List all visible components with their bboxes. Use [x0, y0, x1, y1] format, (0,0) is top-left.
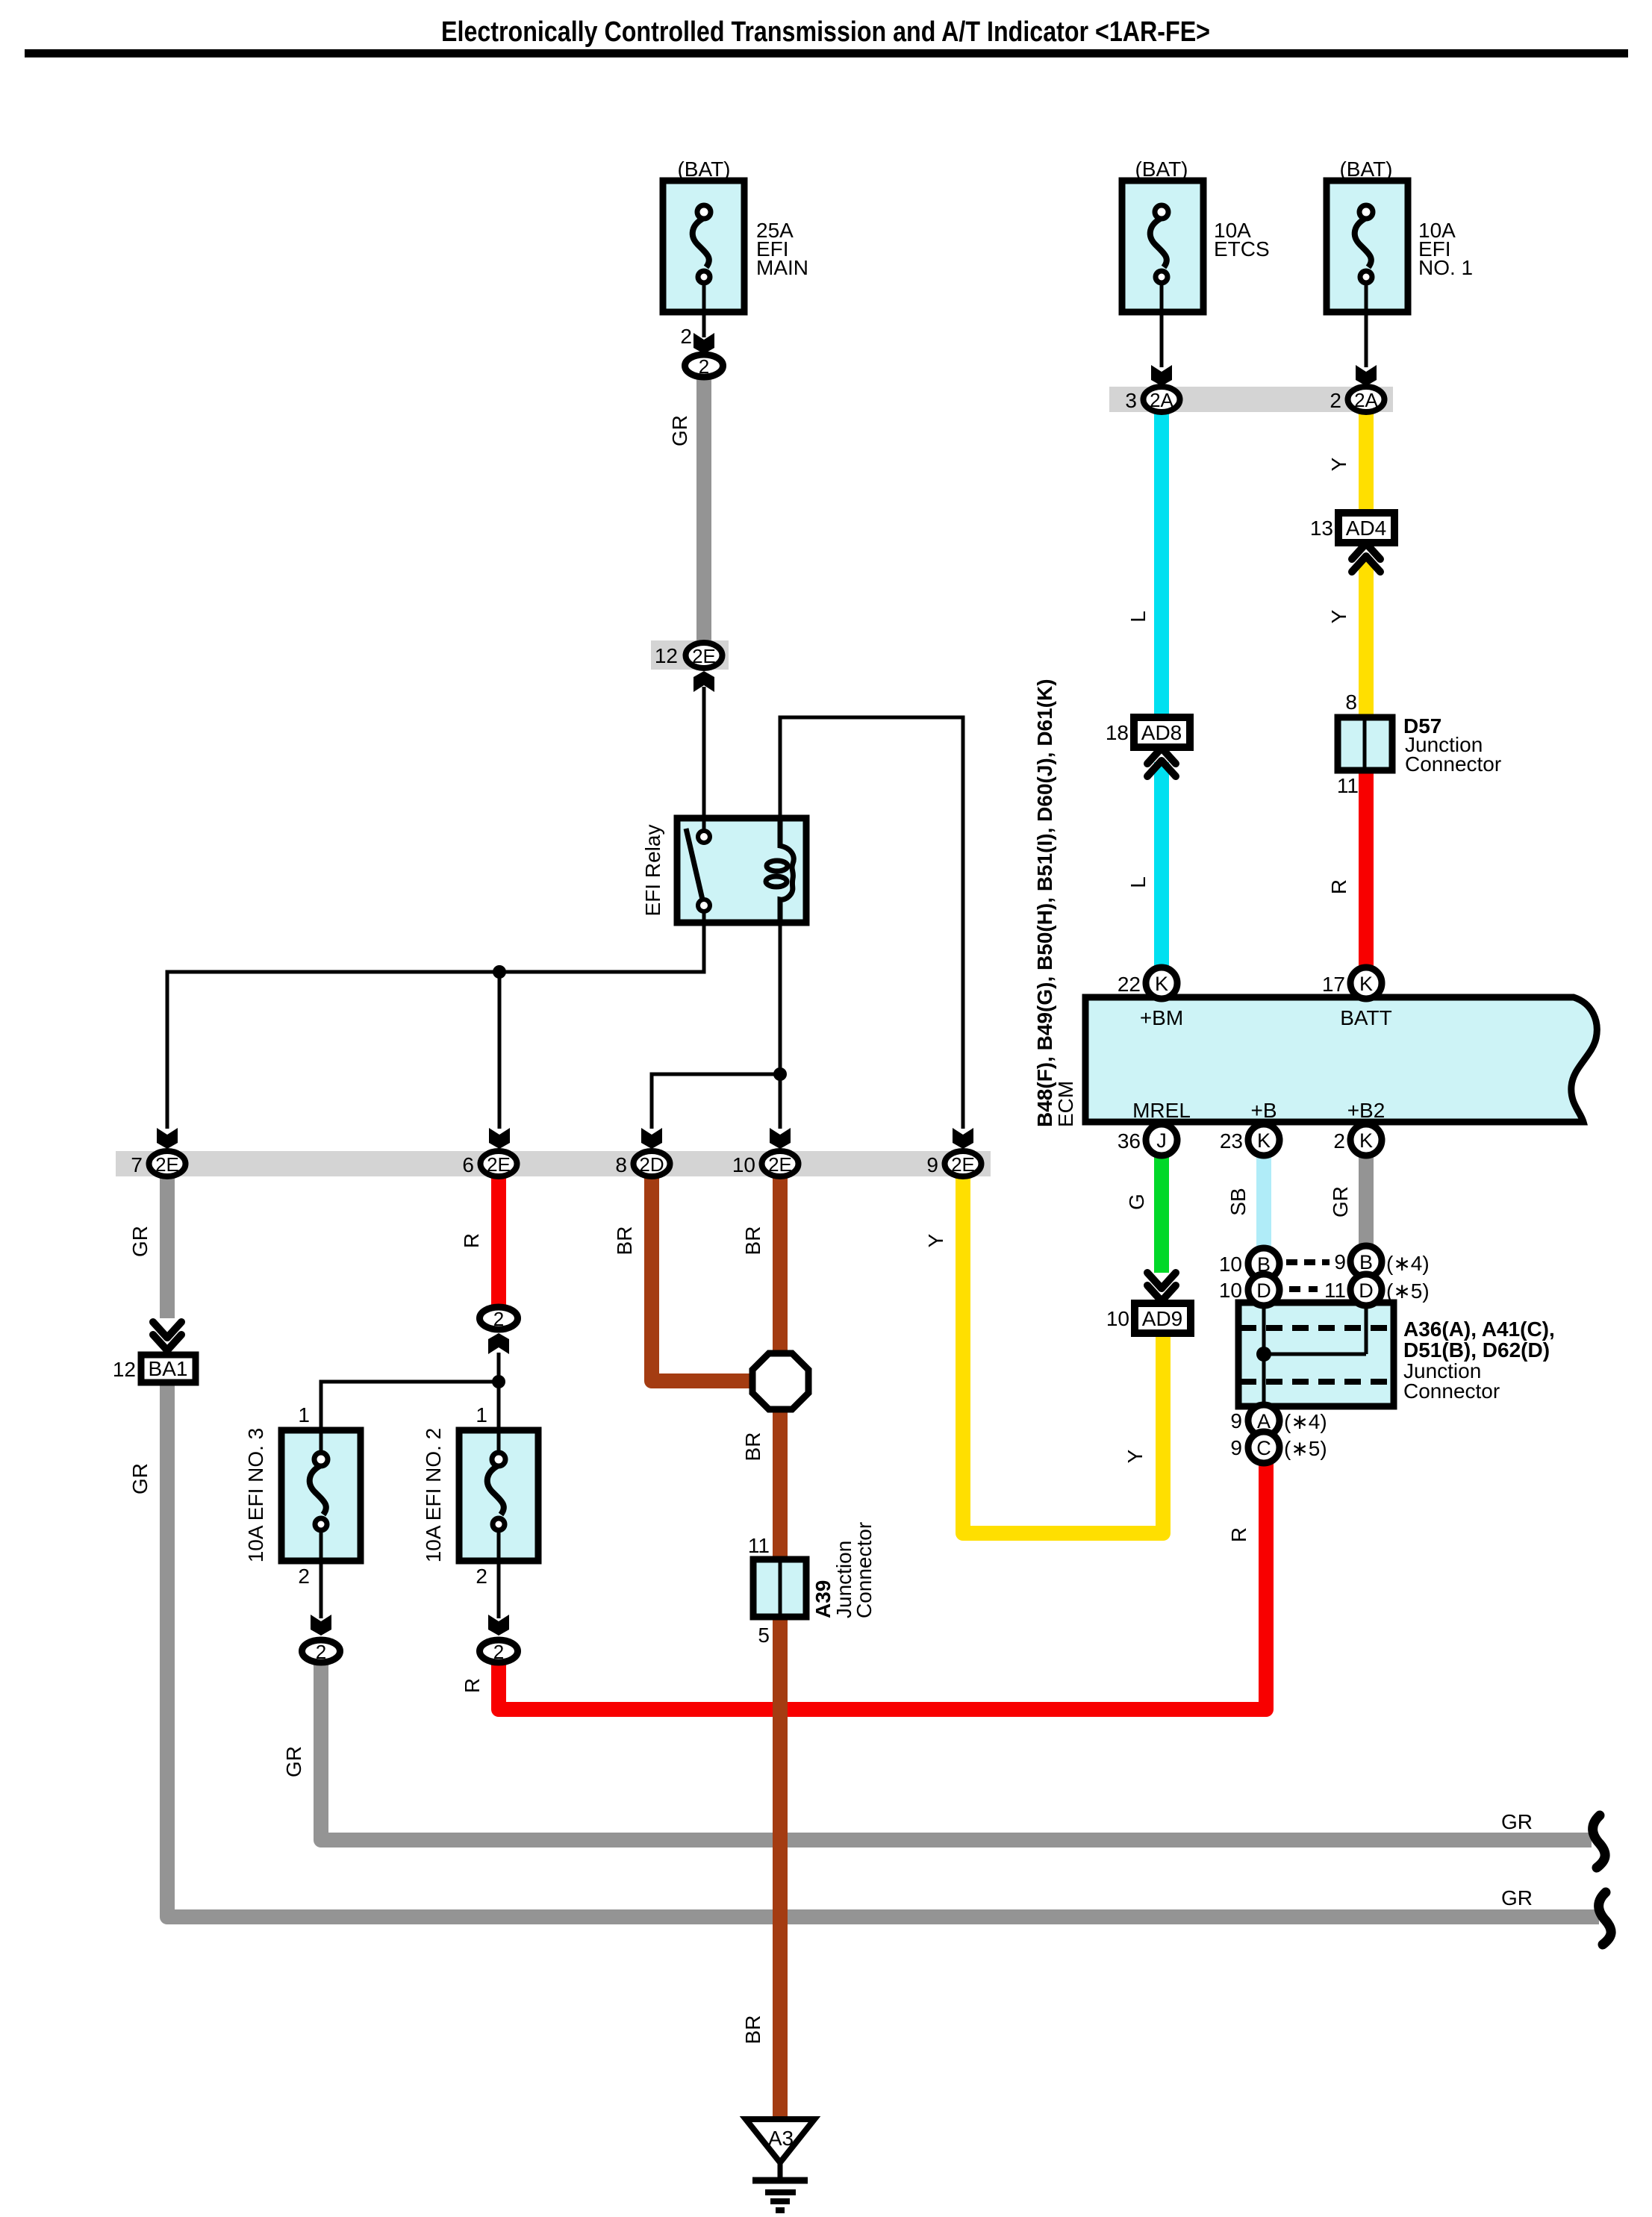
svg-text:10: 10: [732, 1153, 755, 1176]
svg-text:9: 9: [1230, 1436, 1242, 1459]
svg-text:A36(A), A41(C),: A36(A), A41(C),: [1403, 1318, 1555, 1341]
svg-text:BA1: BA1: [149, 1357, 188, 1380]
svg-text:GR: GR: [282, 1746, 305, 1777]
svg-text:R: R: [1227, 1527, 1250, 1542]
wire relay switch bottom to 7/2E and 6/2E: [167, 911, 704, 1129]
svg-text:2: 2: [680, 325, 692, 348]
svg-text:2: 2: [493, 1641, 504, 1663]
svg-text:GR: GR: [1501, 1810, 1533, 1833]
wire G ECM MREL to AD9: [1154, 1153, 1169, 1273]
svg-text:R: R: [1327, 879, 1350, 894]
svg-text:BATT: BATT: [1340, 1006, 1391, 1029]
svg-text:Connector: Connector: [1405, 752, 1501, 776]
svg-text:9: 9: [1334, 1250, 1346, 1273]
svg-text:12: 12: [113, 1358, 136, 1381]
svg-text:GR: GR: [1329, 1186, 1352, 1217]
connector oval 2 below fuse EFI NO.2: [480, 1640, 518, 1662]
svg-text:SB: SB: [1226, 1188, 1250, 1215]
svg-text:2E: 2E: [487, 1153, 511, 1176]
squiggle end of upper GR wire: [1593, 1815, 1606, 1868]
svg-text:B: B: [1359, 1251, 1373, 1273]
squiggle end of lower GR wire: [1599, 1892, 1612, 1945]
wire GR ECM +B2 to junction B: [1359, 1153, 1374, 1249]
svg-text:D: D: [1256, 1279, 1271, 1302]
svg-text:R: R: [460, 1233, 483, 1248]
svg-text:AD9: AD9: [1142, 1307, 1182, 1330]
svg-text:17: 17: [1322, 973, 1345, 996]
wire R fuse EFI NO.2 oval to junction connector C: [499, 1461, 1266, 1709]
svg-text:1: 1: [476, 1403, 487, 1426]
wire Y 9/2E to AD9: [963, 1176, 1163, 1533]
dashes between D and D: [1289, 1286, 1318, 1292]
svg-text:9: 9: [1230, 1409, 1242, 1432]
svg-text:2: 2: [493, 1308, 504, 1330]
junction node at 6/2E drop: [493, 965, 506, 979]
svg-text:(∗5): (∗5): [1386, 1279, 1430, 1303]
wire BR 10/2E to octagon: [773, 1176, 788, 1353]
svg-text:18: 18: [1106, 721, 1129, 744]
wire BR A39 to ground A3: [773, 1617, 788, 2120]
svg-text:(∗4): (∗4): [1284, 1410, 1327, 1433]
svg-text:Connector: Connector: [1403, 1379, 1500, 1403]
svg-text:2: 2: [298, 1565, 310, 1588]
connector oval 2 below fuse EFI NO.3: [302, 1640, 340, 1662]
wire relay switch to 12/2E: [702, 687, 706, 832]
wire R 6/2E to oval 2: [491, 1176, 506, 1305]
connector 18 AD8: [1106, 717, 1190, 776]
relay EFI Relay: [641, 818, 806, 923]
connector band 12 2E: [651, 640, 729, 670]
svg-text:2: 2: [316, 1641, 326, 1663]
svg-text:GR: GR: [1501, 1886, 1533, 1909]
svg-text:K: K: [1257, 1129, 1271, 1152]
svg-text:EFI Relay: EFI Relay: [641, 825, 664, 917]
svg-text:(∗4): (∗4): [1386, 1252, 1430, 1275]
wire red oval 2 down to fuses junction: [497, 1353, 501, 1382]
svg-text:12: 12: [655, 644, 678, 667]
wire relay coil top loop to 9/2E: [780, 717, 963, 1129]
wire fuse EFI NO.2 pin 2 to oval 2: [497, 1532, 501, 1618]
svg-text:J: J: [1156, 1129, 1167, 1152]
svg-text:BR: BR: [741, 1432, 764, 1462]
wire Y AD4 to D57: [1359, 558, 1374, 719]
svg-text:BR: BR: [741, 1226, 764, 1256]
svg-text:K: K: [1359, 973, 1373, 995]
connector oval 2 above fuse junction (red): [480, 1307, 518, 1329]
svg-text:A3: A3: [768, 2127, 794, 2150]
svg-text:GR: GR: [128, 1226, 152, 1257]
wire GR 7/2E to BA1 and bottom right: [167, 1176, 1599, 1917]
svg-text:D: D: [1359, 1279, 1374, 1302]
svg-text:2: 2: [476, 1565, 487, 1588]
wire junction to fuse EFI NO.2 pin 1: [497, 1382, 501, 1454]
svg-text:K: K: [1359, 1129, 1373, 1152]
svg-text:Y: Y: [1327, 457, 1350, 471]
fuse 10A ETCS: [1122, 158, 1270, 312]
svg-text:+B2: +B2: [1347, 1099, 1386, 1122]
wire Y fuse EFI NO.1 to AD4: [1359, 411, 1374, 514]
svg-text:13: 13: [1310, 517, 1333, 540]
connector 10 AD9: [1106, 1273, 1191, 1333]
wire L fuse ETCS to AD8: [1154, 411, 1169, 719]
svg-text:MAIN: MAIN: [756, 256, 808, 279]
wire junction to fuse EFI NO.3 pin 1: [321, 1382, 499, 1454]
ground A3: [746, 2119, 814, 2210]
svg-text:11: 11: [1337, 774, 1359, 797]
wire fuse ETCS to 3/2A: [1160, 286, 1164, 367]
svg-text:A39: A39: [811, 1580, 835, 1618]
connector band 2A: [1109, 387, 1393, 412]
svg-text:(∗5): (∗5): [1284, 1437, 1327, 1460]
svg-text:9: 9: [926, 1153, 938, 1176]
svg-text:10: 10: [1106, 1307, 1129, 1330]
svg-text:2A: 2A: [1354, 389, 1378, 411]
svg-text:C: C: [1256, 1437, 1271, 1459]
svg-text:L: L: [1126, 876, 1150, 888]
svg-text:36: 36: [1118, 1129, 1141, 1153]
junction connector A36(A) A41(C) D51(B) D62(D): [1238, 1303, 1555, 1406]
svg-text:10A EFI NO. 2: 10A EFI NO. 2: [422, 1428, 445, 1563]
svg-text:8: 8: [1345, 690, 1357, 714]
svg-text:2A: 2A: [1150, 389, 1173, 411]
svg-text:11: 11: [748, 1534, 770, 1557]
svg-text:Electronically Controlled Tran: Electronically Controlled Transmission a…: [441, 16, 1210, 48]
connector D57 junction: [1337, 690, 1501, 797]
svg-text:(BAT): (BAT): [1135, 158, 1188, 181]
svg-text:+BM: +BM: [1140, 1006, 1183, 1029]
svg-text:(BAT): (BAT): [1339, 158, 1392, 181]
svg-text:G: G: [1125, 1194, 1148, 1210]
ECM block: [1033, 679, 1597, 1127]
svg-text:Y: Y: [1123, 1449, 1147, 1463]
wire GR fuse EFI MAIN to 12/2E: [696, 377, 711, 642]
svg-text:NO. 1: NO. 1: [1418, 256, 1473, 279]
svg-text:2D: 2D: [639, 1153, 664, 1176]
svg-text:L: L: [1126, 611, 1150, 623]
svg-text:R: R: [461, 1678, 484, 1693]
wire BR octagon to A39: [773, 1409, 788, 1561]
svg-text:ECM: ECM: [1054, 1081, 1077, 1127]
fuse 10A EFI NO.3: [244, 1403, 361, 1588]
svg-text:AD8: AD8: [1141, 721, 1182, 744]
svg-text:22: 22: [1118, 973, 1141, 996]
svg-text:1: 1: [298, 1403, 310, 1426]
connector band 2E/2D: [116, 1151, 991, 1176]
svg-text:K: K: [1155, 973, 1168, 995]
junction node above fuse EFI NO.2: [492, 1375, 505, 1388]
fuse 25A EFI MAIN: [663, 158, 808, 312]
wire R junction A/C redraw vertical over: [1259, 1461, 1274, 1709]
svg-text:3: 3: [1125, 389, 1137, 412]
svg-text:(BAT): (BAT): [677, 158, 730, 181]
svg-text:2E: 2E: [951, 1153, 975, 1176]
svg-text:Connector: Connector: [853, 1522, 876, 1618]
wire BR 8/2D to octagon: [652, 1176, 752, 1381]
svg-text:10: 10: [1219, 1253, 1242, 1276]
wire L AD8 to ECM +BM: [1154, 762, 1169, 970]
wire fuse EFI NO.3 pin 2 to oval 2: [320, 1532, 323, 1618]
svg-text:11: 11: [1324, 1279, 1346, 1302]
wire relay coil bottom to 8/2D and 10/2E: [652, 923, 780, 1129]
svg-text:2E: 2E: [768, 1153, 792, 1176]
fuse 10A EFI NO.2: [422, 1403, 538, 1588]
svg-text:MREL: MREL: [1132, 1099, 1191, 1122]
svg-text:GR: GR: [128, 1463, 152, 1494]
svg-text:Y: Y: [924, 1233, 947, 1247]
svg-text:7: 7: [131, 1153, 143, 1176]
fuse 10A EFI NO.1: [1327, 158, 1473, 312]
wire BR over crossings: [773, 1680, 788, 2120]
svg-text:2: 2: [699, 355, 709, 378]
wire R D57 to ECM BATT: [1359, 769, 1374, 970]
octagon splice: [752, 1353, 808, 1409]
svg-text:Y: Y: [1327, 609, 1350, 623]
svg-text:23: 23: [1220, 1129, 1243, 1153]
svg-text:BR: BR: [613, 1226, 636, 1256]
svg-text:10: 10: [1219, 1279, 1242, 1302]
svg-text:B48(F), B49(G), B50(H), B51(I): B48(F), B49(G), B50(H), B51(I), D60(J), …: [1033, 679, 1056, 1127]
svg-text:6: 6: [462, 1153, 474, 1176]
dashes between B and B: [1286, 1259, 1330, 1265]
svg-text:2: 2: [1330, 389, 1341, 412]
wire fuse EFI MAIN bottom to connector 2: [702, 286, 706, 337]
svg-text:D51(B), D62(D): D51(B), D62(D): [1403, 1338, 1550, 1362]
connector A39 junction: [748, 1522, 876, 1647]
junction node at 10/2E drop: [773, 1067, 787, 1081]
svg-text:2E: 2E: [692, 645, 716, 667]
title rule: [25, 49, 1628, 57]
svg-text:AD4: AD4: [1346, 517, 1386, 540]
svg-text:2: 2: [1333, 1129, 1345, 1153]
wire fuse EFI NO.1 to 2/2A: [1365, 286, 1368, 367]
svg-text:5: 5: [758, 1624, 770, 1647]
wire SB ECM +B to junction B: [1256, 1153, 1271, 1251]
connector 12 BA1: [113, 1318, 196, 1382]
wire GR fuse EFI NO.3 oval to bottom right: [321, 1665, 1592, 1840]
svg-text:BR: BR: [741, 2015, 764, 2045]
svg-text:10A EFI NO. 3: 10A EFI NO. 3: [244, 1428, 267, 1563]
svg-text:GR: GR: [668, 415, 691, 446]
svg-text:ETCS: ETCS: [1214, 237, 1270, 261]
svg-text:2E: 2E: [155, 1153, 179, 1176]
svg-text:8: 8: [615, 1153, 627, 1176]
svg-text:+B: +B: [1250, 1099, 1277, 1122]
connector 13 AD4: [1310, 513, 1394, 572]
